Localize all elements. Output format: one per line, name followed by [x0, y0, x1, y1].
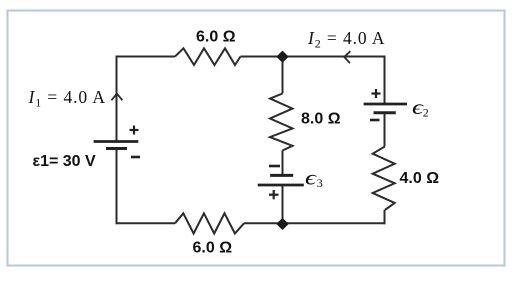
- label e3 (battery E3 name): [305, 167, 323, 191]
- wire right branch lower (resistor to bottom corner): [384, 210, 386, 224]
- battery E1 minus sign: [131, 156, 140, 159]
- node dot top junction: [277, 52, 287, 62]
- battery E1 plates: [94, 142, 139, 149]
- wire right branch upper (corner to battery e2): [384, 56, 386, 105]
- resistor R-right 4.0 ohm zigzag: [373, 147, 395, 211]
- battery E2 plates: [364, 104, 407, 113]
- wire left branch lower (battery e1 to bottom corner): [116, 149, 118, 225]
- wire bottom-right segment: [244, 222, 386, 224]
- arrow I1 (current up, on left wire): [111, 94, 122, 101]
- arrow I2 (current left, on top wire): [344, 51, 350, 63]
- wire middle branch (8 ohm to battery e3): [282, 151, 284, 176]
- wire middle branch lower (battery e3 to bottom node): [282, 185, 284, 224]
- battery E3 plus sign: [269, 190, 279, 199]
- battery E2 minus sign: [370, 119, 380, 122]
- battery E3 minus sign: [269, 165, 280, 168]
- wire top-left segment: [117, 57, 176, 58]
- svg-text:4.0 Ω: 4.0 Ω: [400, 170, 440, 187]
- resistor R-middle 8.0 ohm zigzag: [270, 94, 293, 151]
- resistor R-top 6.0 ohm zigzag: [175, 48, 241, 65]
- battery E1 plus sign: [130, 126, 139, 135]
- svg-text:8.0 Ω: 8.0 Ω: [301, 111, 341, 128]
- wire middle branch upper (top node to 8 ohm): [282, 57, 284, 94]
- svg-text:ϵ: ϵ: [305, 167, 317, 190]
- svg-text:6.0 Ω: 6.0 Ω: [193, 240, 233, 257]
- resistor R-bottom 6.0 ohm zigzag: [175, 213, 244, 233]
- node dot bottom junction: [277, 219, 287, 229]
- svg-text:ε1= 30 V: ε1= 30 V: [33, 153, 97, 170]
- battery E2 plus sign: [372, 89, 381, 98]
- svg-text:2: 2: [423, 105, 429, 119]
- svg-text:3: 3: [317, 176, 323, 190]
- wire bottom-left segment: [117, 222, 176, 224]
- wire right branch middle (battery e2 to resistor): [384, 113, 386, 147]
- wire top-right segment: [241, 56, 386, 58]
- wire left branch upper (corner to battery e1): [116, 57, 118, 142]
- label e2 (battery E2 name): [412, 96, 429, 119]
- battery E3 plates: [258, 175, 304, 185]
- svg-text:6.0 Ω: 6.0 Ω: [196, 29, 236, 46]
